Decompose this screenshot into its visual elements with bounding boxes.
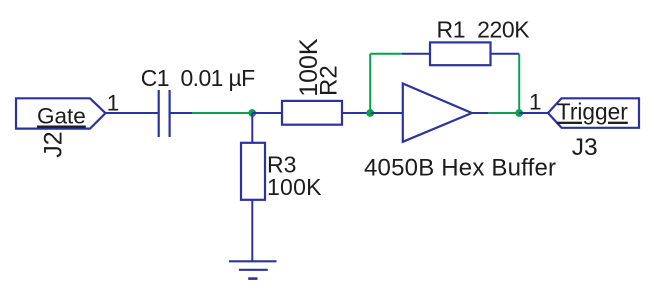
wire node B to buffer input bbox=[370, 112, 403, 114]
wire top left horizontal (green) bbox=[370, 53, 402, 55]
resistor R2 bbox=[282, 101, 342, 125]
node B junction bbox=[366, 109, 374, 117]
svg-text:4050B Hex Buffer: 4050B Hex Buffer bbox=[364, 155, 556, 182]
resistor R1 bbox=[430, 42, 491, 65]
wire R1 right (blue) bbox=[491, 53, 520, 55]
wire node A to R2 bbox=[252, 112, 282, 114]
ground bbox=[229, 261, 277, 278]
svg-text:Gate: Gate bbox=[37, 104, 86, 129]
wire node A down to R3 bbox=[251, 113, 253, 143]
wire node B up (green) bbox=[369, 54, 371, 113]
svg-text:Trigger: Trigger bbox=[557, 99, 628, 125]
svg-text:1: 1 bbox=[107, 90, 120, 115]
svg-text:J3: J3 bbox=[572, 134, 598, 161]
connector J3 (Trigger) bbox=[548, 98, 639, 161]
wire buffer output (blue) bbox=[472, 112, 488, 114]
node A junction bbox=[248, 109, 256, 117]
svg-text:1: 1 bbox=[529, 89, 542, 114]
wire to R1 left (blue) bbox=[402, 53, 430, 55]
wire J2 tip to C1 left plate bbox=[106, 112, 159, 114]
resistor R3 bbox=[241, 143, 265, 200]
svg-text:R2: R2 bbox=[315, 65, 342, 96]
wire to node C (green) bbox=[488, 112, 519, 114]
label R3 100K bbox=[267, 152, 322, 200]
wire C1 right plate stub (blue) bbox=[170, 112, 192, 114]
svg-text:J2: J2 bbox=[39, 131, 67, 157]
svg-text:100K: 100K bbox=[267, 174, 322, 200]
connector J2 (Gate) bbox=[16, 98, 106, 158]
wire down to node C (green) bbox=[518, 54, 520, 113]
wire node C to J3 bbox=[519, 112, 548, 114]
svg-text:R1 220K: R1 220K bbox=[437, 16, 531, 42]
wire R2 to node B bbox=[342, 112, 370, 114]
svg-text:C1 0.01 µF: C1 0.01 µF bbox=[141, 65, 255, 91]
wire C1 to node A (green) bbox=[192, 112, 252, 114]
wire R3 to ground bbox=[251, 200, 253, 261]
op-amp U1 buffer triangle bbox=[403, 84, 472, 142]
capacitor C1 bbox=[159, 90, 170, 137]
node C junction bbox=[515, 109, 523, 117]
